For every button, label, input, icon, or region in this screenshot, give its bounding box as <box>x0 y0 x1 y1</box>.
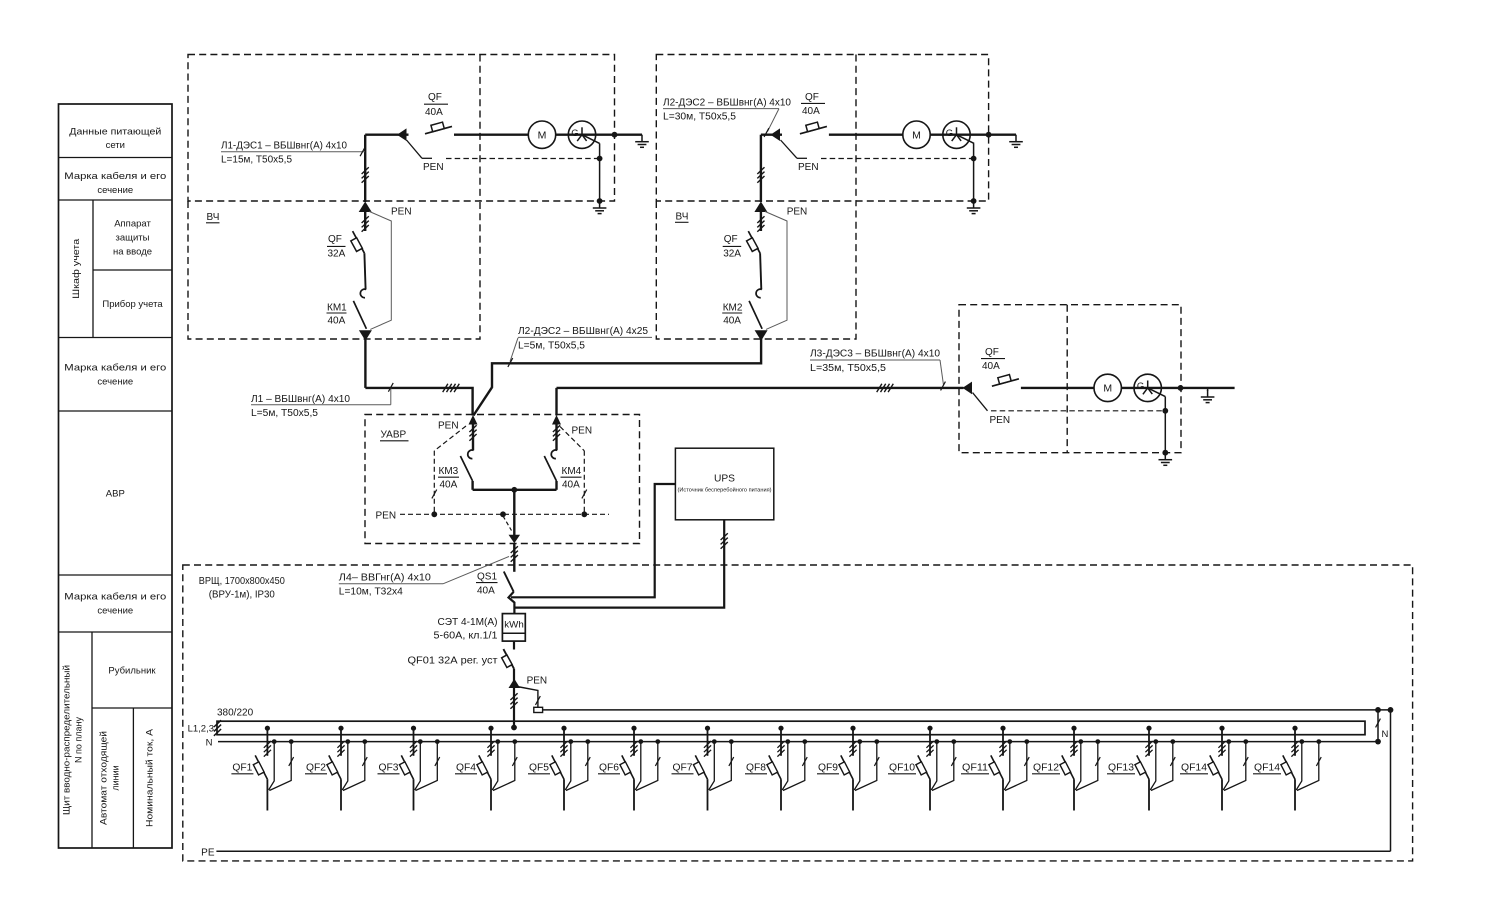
feeder branch QF3 <box>411 726 416 731</box>
svg-text:QF: QF <box>724 234 738 245</box>
svg-text:PEN: PEN <box>572 426 593 437</box>
wire: PEN dashed (ДЭС1) <box>446 158 600 160</box>
svg-text:QF: QF <box>328 234 342 245</box>
svg-text:PEN: PEN <box>423 162 444 173</box>
svg-text:Аппарат: Аппарат <box>114 219 151 230</box>
svg-text:(ВРУ-1м), IP30: (ВРУ-1м), IP30 <box>209 590 275 601</box>
contactor КМ4 fixed contact <box>551 450 557 459</box>
breaker QF14 blade <box>1283 755 1295 779</box>
wire: Л2 cable drop <box>760 135 762 202</box>
wire: КМ4 input drop <box>555 388 557 416</box>
feeder branch QF11 <box>1000 726 1005 731</box>
generator set M-G (ДЭС1) <box>528 121 555 148</box>
node: PEN bus tap <box>500 511 506 517</box>
svg-text:М: М <box>1103 383 1112 395</box>
svg-text:QF10: QF10 <box>889 763 915 774</box>
svg-text:QF13: QF13 <box>1108 763 1134 774</box>
wire: УАВР output <box>513 490 515 535</box>
wire: switched N QF9 <box>874 739 879 744</box>
enclosure ДЭС1 outer dashed box <box>188 55 615 202</box>
arrow: ВЧ1 outgoing <box>359 330 372 341</box>
thin PEN bypass line ВЧ2 <box>765 212 787 330</box>
svg-text:40А: 40А <box>440 480 458 491</box>
wire: meter to QF01 <box>513 641 515 649</box>
node: N feeder to N bus <box>1375 707 1381 713</box>
cable marks below PEN arrow <box>510 693 517 709</box>
wire: switched N QF14 <box>1243 739 1248 744</box>
breaker QF 32А (ВЧ2) blade <box>748 231 760 253</box>
svg-text:40А: 40А <box>802 106 820 117</box>
feeder branch QF9 <box>850 726 855 731</box>
feeder branch QF7 <box>705 726 710 731</box>
svg-text:40А: 40А <box>562 480 580 491</box>
leader (Л2-ДЭС2 label) <box>768 109 780 132</box>
wire: QF to generator set 1 <box>454 133 642 135</box>
svg-text:L=5м, Т50х5,5: L=5м, Т50х5,5 <box>251 408 318 419</box>
svg-text:Щит вводно-распределительный: Щит вводно-распределительный <box>62 665 72 815</box>
wire: N bus riser <box>1377 710 1379 742</box>
breaker QF5 blade <box>552 755 564 779</box>
breaker QF9 blade <box>841 755 853 779</box>
svg-text:Рубильник: Рубильник <box>108 666 156 677</box>
svg-text:QF4: QF4 <box>456 763 476 774</box>
wire: N pole QF11 <box>1007 739 1012 744</box>
wire: N pole QF8 <box>785 739 790 744</box>
svg-text:Л3-ДЭС3 – ВБШвнг(А) 4х10: Л3-ДЭС3 – ВБШвнг(А) 4х10 <box>810 349 940 360</box>
node: main drop at busbar <box>511 725 517 731</box>
arrow: КМ4 input <box>552 415 561 425</box>
generator set M-G (ДЭС3) <box>1094 374 1121 401</box>
svg-text:QF: QF <box>428 92 442 103</box>
PEN dashed diagonal right <box>560 427 584 451</box>
svg-text:PEN: PEN <box>990 415 1011 426</box>
contactor КМ3 blade <box>460 456 472 481</box>
ground (ДЭС2 right) <box>1009 135 1023 148</box>
svg-text:G: G <box>946 128 953 139</box>
svg-text:сечение: сечение <box>97 606 133 617</box>
wire: N pole QF2 <box>345 739 350 744</box>
wire: switched N QF10 <box>951 739 956 744</box>
wire: QF01 down to bus <box>513 669 515 728</box>
ground (ДЭС1 right) <box>635 135 649 148</box>
ground (ДЭС3 right) <box>1201 390 1215 403</box>
svg-text:ВРЩ, 1700х800х450: ВРЩ, 1700х800х450 <box>199 576 285 587</box>
leader tick (Л3 label) <box>940 360 944 385</box>
cable marks on Л1 run <box>443 384 460 392</box>
wire: PE riser <box>1390 710 1392 851</box>
wire: КМ4 to common bus <box>555 481 557 490</box>
node: neutral at box bottom (ДЭС1) <box>597 198 603 204</box>
enclosure ВЧ1 dashed box <box>188 201 480 339</box>
feeder branch QF14 <box>1219 726 1224 731</box>
contactor КМ1 blade <box>353 301 366 329</box>
cable marks ВЧ2 top <box>757 216 764 232</box>
feeder branch QF14 <box>1292 726 1297 731</box>
arrow: КМ3 input <box>469 415 478 425</box>
svg-text:QS1: QS1 <box>477 572 497 583</box>
wire: N pole QF6 <box>638 739 643 744</box>
svg-text:ВЧ: ВЧ <box>676 212 689 223</box>
wire: PEN tap diagonal (ДЭС3) <box>973 393 988 411</box>
svg-text:L=5м, Т50х5,5: L=5м, Т50х5,5 <box>518 341 585 352</box>
svg-text:PEN: PEN <box>787 207 808 218</box>
svg-text:М: М <box>912 129 921 141</box>
wire: switched N QF13 <box>1170 739 1175 744</box>
wire: switched N QF11 <box>1024 739 1029 744</box>
svg-text:40А: 40А <box>328 316 346 327</box>
svg-text:Данные питающей: Данные питающей <box>69 127 161 138</box>
wire: QF to generator set 2 <box>829 133 1016 135</box>
wire: N pole QF13 <box>1153 739 1158 744</box>
wire: N feeder from meter <box>543 709 1391 711</box>
wire: N pole QF5 <box>568 739 573 744</box>
UPS box <box>675 448 773 520</box>
wire: between QF and КМ2 <box>760 253 761 289</box>
svg-text:Л4– ВВГнг(А) 4х10: Л4– ВВГнг(А) 4х10 <box>339 573 431 584</box>
wire: switched N QF14 <box>1316 739 1321 744</box>
node: ДЭС2 box edge junction <box>986 132 992 138</box>
enclosure ВРЩ dashed box <box>183 565 1413 861</box>
feeder branch QF8 <box>778 726 783 731</box>
busbar L1,2,3 <box>217 721 1365 735</box>
wire: switched N QF4 <box>512 739 517 744</box>
svg-text:QF01 32А рег. уст: QF01 32А рег. уст <box>408 656 498 667</box>
ground (generator 3 neutral) <box>1159 453 1173 466</box>
node: PEN left <box>431 511 437 517</box>
svg-text:М: М <box>538 129 547 141</box>
svg-text:PEN: PEN <box>438 421 459 432</box>
wire: switched N QF1 <box>289 739 294 744</box>
breaker QF11 blade <box>991 755 1003 779</box>
svg-text:5-60А, кл.1/1: 5-60А, кл.1/1 <box>434 631 498 642</box>
cable marks КМ4 input <box>555 425 557 451</box>
wire: between QF and КМ1 <box>364 253 365 289</box>
meter СЭТ 4-1М kWh box <box>502 614 525 642</box>
svg-text:QF11: QF11 <box>962 763 988 774</box>
wire: generator 1 neutral drop <box>599 143 601 201</box>
enclosure ДЭС2 divider <box>855 55 857 202</box>
wire: switched N QF5 <box>585 739 590 744</box>
svg-text:QF7: QF7 <box>673 763 693 774</box>
breaker QF1 blade <box>255 755 267 779</box>
PEN dashed diagonal left <box>434 426 466 451</box>
svg-text:ВЧ: ВЧ <box>207 212 220 223</box>
svg-text:АВР: АВР <box>106 489 125 500</box>
switch QS1 blade <box>504 572 514 592</box>
arrow: entry to ВЧ2 <box>754 202 767 213</box>
wire: QF to generator set 3 <box>1021 387 1235 389</box>
feeder branch QF13 <box>1146 726 1151 731</box>
svg-text:L=35м, Т50х5,5: L=35м, Т50х5,5 <box>810 363 886 374</box>
wire: switched N QF2 <box>362 739 367 744</box>
svg-text:N: N <box>206 738 213 749</box>
PEN dashed vertical right <box>583 451 585 515</box>
svg-text:PEN: PEN <box>376 511 397 522</box>
wire: PEN tap diagonal (ДЭС2) <box>781 140 798 158</box>
wire: generator 3 neutral drop <box>1164 397 1166 453</box>
svg-text:Л2-ДЭС2 – ВБШвнг(А) 4х10: Л2-ДЭС2 – ВБШвнг(А) 4х10 <box>663 98 791 109</box>
wire: N pole QF1 <box>272 739 277 744</box>
wire: ВЧ1 output down to Л1 run <box>364 339 366 388</box>
node: ДЭС3 box edge junction <box>1178 385 1184 391</box>
wire: N pole QF14 <box>1299 739 1304 744</box>
svg-text:Марка кабеля и его: Марка кабеля и его <box>64 171 166 182</box>
wire: PEN dashed (ДЭС2) <box>821 158 974 160</box>
svg-text:QF: QF <box>985 347 999 358</box>
feeder branch QF4 <box>488 726 493 731</box>
svg-text:КМ4: КМ4 <box>562 466 582 477</box>
enclosure ВЧ2 dashed box <box>656 201 856 339</box>
leader (Л4 label) <box>443 557 509 584</box>
svg-text:сечение: сечение <box>97 377 133 388</box>
svg-text:32А: 32А <box>723 249 741 260</box>
leader tick (Л1-ДЭС1 label) <box>360 147 365 156</box>
contactor КМ4 blade <box>544 456 556 481</box>
contactor КМ3 fixed contact <box>468 450 474 459</box>
node: neutral at box bottom (ДЭС2) <box>971 198 977 204</box>
leader (Л2 4х25 label) <box>510 338 518 362</box>
svg-text:380/220: 380/220 <box>217 708 254 719</box>
wire: UPS output down <box>514 520 724 608</box>
breaker QF01 blade <box>503 649 514 669</box>
wire: ДЭС1 feed horizontal <box>365 133 408 135</box>
wire: switched N QF7 <box>729 739 734 744</box>
svg-text:КМ3: КМ3 <box>439 466 459 477</box>
node: ДЭС1 box edge junction <box>612 132 618 138</box>
breaker QF14 blade <box>1210 755 1222 779</box>
svg-text:UPS: UPS <box>714 473 735 485</box>
wire: N pole QF3 <box>418 739 423 744</box>
wire: PEN to N diagonal <box>517 687 538 708</box>
wire: Л1 cable drop <box>364 135 366 202</box>
feeder branch QF1 <box>265 726 270 731</box>
breaker QF12 blade <box>1062 755 1074 779</box>
svg-text:L=15м, Т50х5,5: L=15м, Т50х5,5 <box>221 155 292 166</box>
wire: ДЭС2 feed horizontal <box>761 133 782 135</box>
enclosure УАВР dashed box <box>365 415 640 544</box>
breaker QF 40A (ДЭС1) blade <box>425 126 452 133</box>
svg-text:40А: 40А <box>982 361 1000 372</box>
breaker QF3 blade <box>401 755 413 779</box>
svg-text:L=30м, Т50х5,5: L=30м, Т50х5,5 <box>663 112 736 123</box>
breaker QF10 blade <box>918 755 930 779</box>
breaker QF8 blade <box>769 755 781 779</box>
cable marks on Л1 drop <box>362 167 369 183</box>
ground (generator 1 neutral) <box>593 201 607 214</box>
breaker QF 32А (ВЧ1) blade <box>353 231 365 253</box>
wire: ВЧ2 output to Л2 run (4х25) <box>492 339 761 388</box>
svg-text:L1,2,3: L1,2,3 <box>188 724 214 735</box>
breaker QF7 blade <box>695 755 707 779</box>
node: N feeder to PE riser <box>1388 707 1394 713</box>
wire: N pole QF9 <box>857 739 862 744</box>
breaker QF13 blade <box>1137 755 1149 779</box>
svg-text:QF14: QF14 <box>1254 763 1280 774</box>
feeder branch QF5 <box>561 726 566 731</box>
wire: N pole QF12 <box>1078 739 1083 744</box>
svg-text:QF1: QF1 <box>232 763 252 774</box>
svg-text:QF8: QF8 <box>746 763 766 774</box>
breaker QF 40A (ДЭС3) blade <box>992 379 1019 386</box>
wire: Л4 drop to ВРЩ <box>513 543 515 572</box>
arrow: УАВР output <box>509 535 521 544</box>
arrow: ВЧ2 outgoing <box>755 330 768 341</box>
svg-text:QF: QF <box>805 92 819 103</box>
cable marks UPS output <box>721 533 728 549</box>
svg-text:QF6: QF6 <box>599 763 619 774</box>
svg-text:QF9: QF9 <box>818 763 838 774</box>
cable marks busbar left <box>214 720 221 736</box>
wire: N pole QF14 <box>1226 739 1231 744</box>
svg-text:СЭТ 4-1М(А): СЭТ 4-1М(А) <box>438 617 498 628</box>
enclosure ДЭС2 outer dashed box <box>656 55 988 202</box>
svg-text:32А: 32А <box>328 249 346 260</box>
svg-text:N по плану: N по плану <box>74 717 84 763</box>
generator set M-G (ДЭС2) <box>903 121 930 148</box>
svg-text:G: G <box>571 128 578 139</box>
breaker QF 40A (ДЭС2) blade <box>800 126 827 133</box>
wire: switched N QF12 <box>1095 739 1100 744</box>
wire: УАВР PEN bus dashed <box>400 513 609 515</box>
svg-text:Л1 – ВБШвнг(А) 4х10: Л1 – ВБШвнг(А) 4х10 <box>251 394 350 405</box>
arrow: entry to ВЧ1 <box>359 202 372 213</box>
svg-text:Марка кабеля и его: Марка кабеля и его <box>64 363 166 374</box>
breaker QF4 blade <box>479 755 491 779</box>
thin PEN bypass line ВЧ1 <box>369 212 391 330</box>
enclosure ДЭС3 divider <box>1066 305 1068 453</box>
breaker QF6 blade <box>622 755 634 779</box>
feeder branch QF10 <box>927 726 932 731</box>
svg-text:защиты: защиты <box>116 233 150 244</box>
svg-text:КМ1: КМ1 <box>327 303 347 314</box>
svg-text:Номинальный ток, А: Номинальный ток, А <box>145 729 155 827</box>
wire: generator 2 neutral drop <box>973 143 975 201</box>
cable marks on Л2 drop <box>757 167 764 183</box>
svg-text:Прибор учета: Прибор учета <box>102 299 163 310</box>
node: neutral/PEN junction (ДЭС1) <box>597 156 603 162</box>
arrow: supply direction ДЭС2 <box>771 128 781 141</box>
wire: N pole QF7 <box>712 739 717 744</box>
PEN dashed vertical left <box>433 451 435 515</box>
bus N <box>218 741 1379 743</box>
wire: ВЧ2 vertical upper <box>760 211 762 231</box>
svg-text:на вводе: на вводе <box>113 247 152 258</box>
svg-text:L=10м, Т32х4: L=10м, Т32х4 <box>339 587 403 598</box>
contactor КМ2 fixed contact <box>756 289 762 298</box>
wire: N pole QF10 <box>934 739 939 744</box>
svg-text:сети: сети <box>106 140 125 151</box>
svg-text:40А: 40А <box>723 316 741 327</box>
cable marks Л4 <box>511 546 518 562</box>
node: neutral/PEN junction (ДЭС3) <box>1162 408 1168 414</box>
wire: ВЧ1 vertical upper <box>364 211 366 231</box>
svg-text:сечение: сечение <box>97 185 133 196</box>
wire: QS1 to UPS input <box>511 484 675 597</box>
wire: switched N QF3 <box>435 739 440 744</box>
enclosure ДЭС1 divider <box>479 55 481 202</box>
wire: КМ3 to common bus <box>471 481 473 490</box>
wire: Л1 run to УАВР <box>365 388 472 416</box>
svg-text:40А: 40А <box>477 586 495 597</box>
node: УАВР output junction <box>511 487 517 493</box>
wire: PEN dashed (ДЭС3) <box>991 410 1165 412</box>
node: neutral at box bottom (ДЭС3) <box>1162 450 1168 456</box>
wire: PEN tap diagonal (ДЭС1) <box>407 140 423 158</box>
svg-text:PEN: PEN <box>391 207 412 218</box>
svg-text:PEN: PEN <box>527 676 548 687</box>
svg-text:Шкаф учета: Шкаф учета <box>71 238 82 299</box>
wire: УАВР common bus <box>473 489 557 491</box>
svg-text:G: G <box>1137 381 1144 392</box>
svg-text:линии: линии <box>111 765 121 790</box>
wire: N pole QF4 <box>495 739 500 744</box>
svg-text:Л2-ДЭС2 – ВБШвнг(А) 4х25: Л2-ДЭС2 – ВБШвнг(А) 4х25 <box>518 326 648 337</box>
svg-text:Автомат отходящей: Автомат отходящей <box>99 731 109 825</box>
svg-text:N: N <box>1382 729 1389 740</box>
svg-text:Л1-ДЭС1 – ВБШвнг(А) 4х10: Л1-ДЭС1 – ВБШвнг(А) 4х10 <box>221 141 347 152</box>
wire: QS1 jog to meter <box>509 592 515 614</box>
svg-text:40А: 40А <box>425 107 443 118</box>
ground (generator 2 neutral) <box>967 201 981 214</box>
PEN dashed diagonal to output <box>503 516 512 531</box>
cable marks ВЧ1 top <box>362 216 369 232</box>
arrow: supply direction ДЭС1 <box>397 128 407 141</box>
wire: Л3 run from УАВР to ДЭС3 <box>557 387 964 389</box>
contactor КМ1 fixed contact <box>360 289 366 298</box>
wire: switched N QF6 <box>655 739 660 744</box>
breaker QF2 blade <box>329 755 341 779</box>
table: line descriptor column frame <box>59 104 173 848</box>
svg-text:kWh: kWh <box>504 620 524 630</box>
cable marks on Л3 run <box>877 384 894 392</box>
svg-text:QF12: QF12 <box>1033 763 1059 774</box>
arrow: PEN split <box>509 679 521 688</box>
svg-text:PE: PE <box>201 848 215 859</box>
enclosure ДЭС3 dashed box <box>959 305 1181 453</box>
svg-text:QF2: QF2 <box>306 763 326 774</box>
wire: Л2 diagonal into УАВР <box>473 387 492 415</box>
svg-text:(Источник бесперебойного питан: (Источник бесперебойного питания) <box>678 487 772 494</box>
feeder branch QF6 <box>631 726 636 731</box>
node: PEN right <box>581 511 587 517</box>
node: neutral/PEN junction (ДЭС2) <box>971 156 977 162</box>
node: N bus end <box>1375 739 1381 745</box>
wire: switched N QF8 <box>802 739 807 744</box>
leader (Л1 label) <box>390 387 392 404</box>
cable marks КМ3 input <box>472 425 474 451</box>
svg-text:QF14: QF14 <box>1181 763 1207 774</box>
feeder branch QF2 <box>338 726 343 731</box>
svg-text:УАВР: УАВР <box>381 430 407 441</box>
svg-text:PEN: PEN <box>798 162 819 173</box>
svg-text:Марка кабеля и его: Марка кабеля и его <box>64 592 166 603</box>
contactor КМ2 blade <box>749 301 762 329</box>
terminal: N connection box <box>534 707 543 712</box>
arrow: supply direction ДЭС3 <box>963 382 973 395</box>
feeder branch QF12 <box>1071 726 1076 731</box>
bus PE <box>216 850 1390 852</box>
svg-text:QF5: QF5 <box>529 763 549 774</box>
svg-text:QF3: QF3 <box>379 763 399 774</box>
svg-text:КМ2: КМ2 <box>723 303 743 314</box>
